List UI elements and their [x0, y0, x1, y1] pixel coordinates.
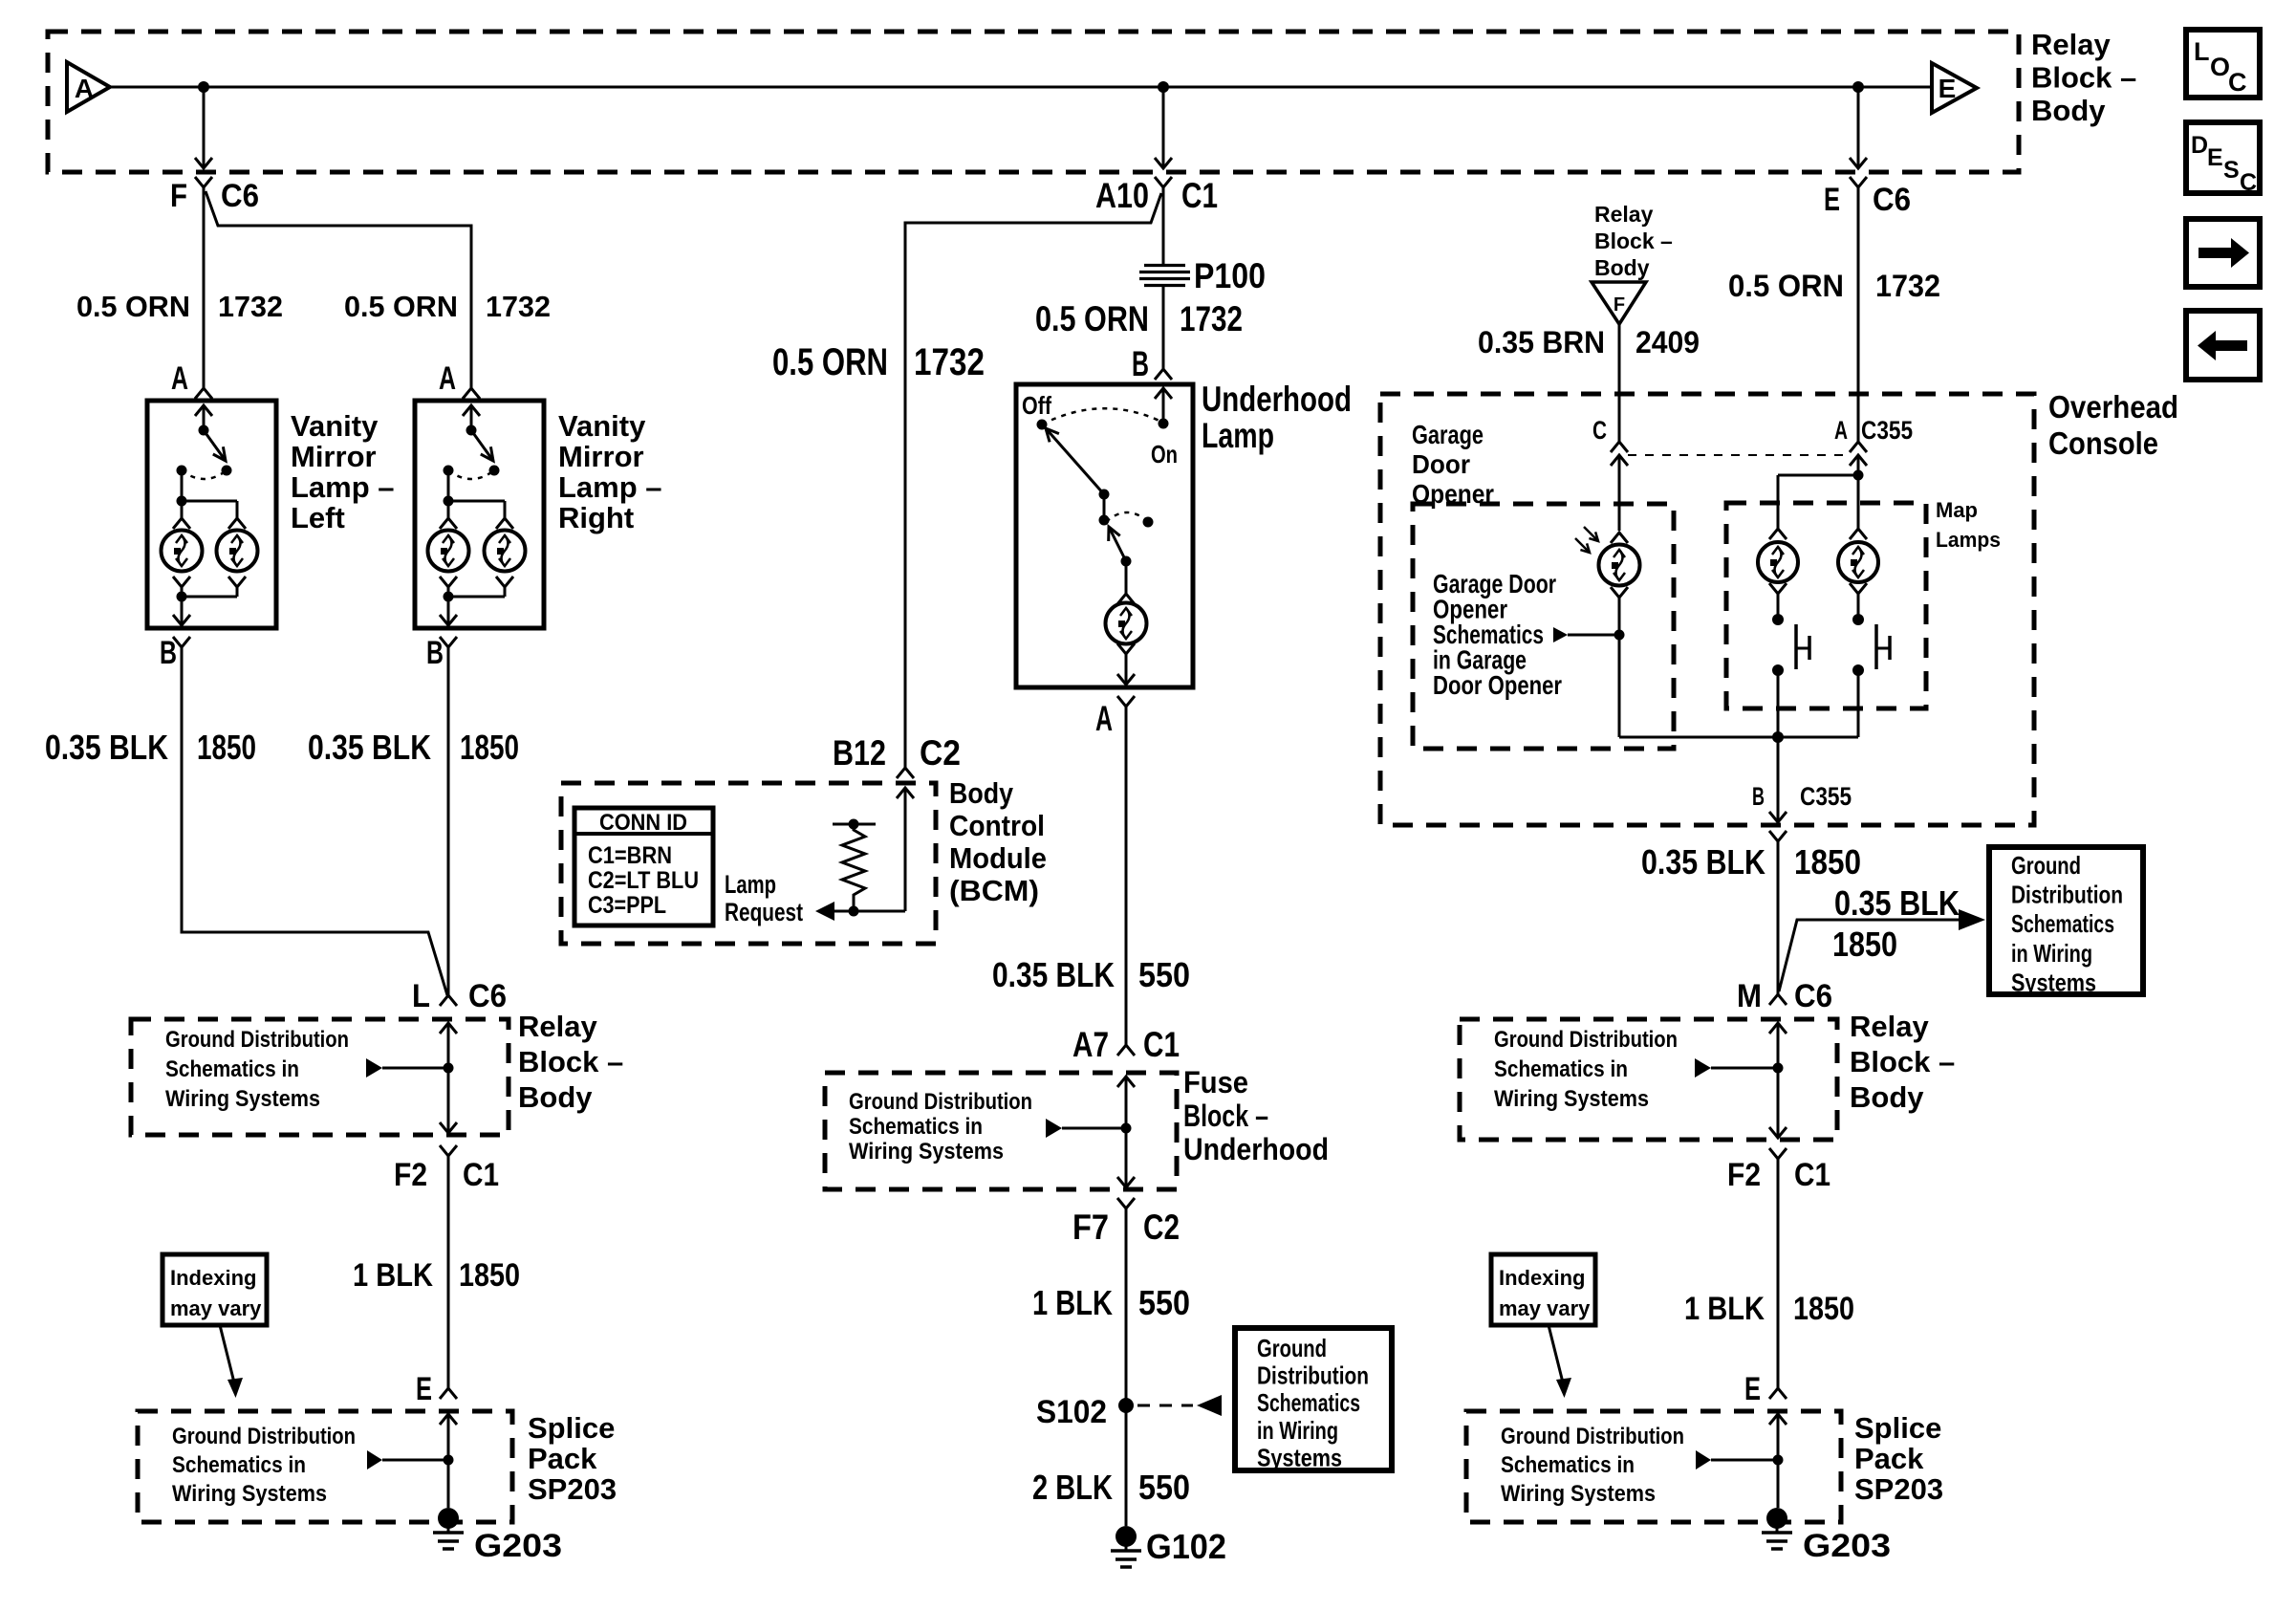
svg-text:Indexing: Indexing	[170, 1266, 256, 1290]
svg-text:1732: 1732	[486, 290, 551, 323]
svg-text:SP203: SP203	[528, 1472, 617, 1506]
connector C C355	[1611, 442, 1628, 452]
connector F C6	[195, 158, 212, 168]
svg-text:Body: Body	[1850, 1080, 1924, 1114]
svg-text:Relay: Relay	[1850, 1010, 1929, 1043]
svg-text:SP203: SP203	[1854, 1472, 1943, 1506]
connector A C355	[1850, 442, 1867, 452]
svg-text:0.35 BLK: 0.35 BLK	[992, 955, 1115, 994]
svg-text:F2: F2	[394, 1157, 427, 1193]
wire F7 to G102	[1125, 1208, 1128, 1526]
overhead console dashed box	[1380, 394, 2034, 825]
svg-text:Right: Right	[558, 501, 634, 534]
splice pack dashed box (left)	[138, 1411, 512, 1522]
svg-text:B12: B12	[833, 733, 886, 773]
svg-text:Pack: Pack	[528, 1442, 597, 1475]
svg-text:0.35 BLK: 0.35 BLK	[1834, 883, 1960, 923]
wire drop to E C6	[1857, 87, 1860, 168]
wire drop to F C6	[203, 87, 206, 168]
switch travel arc 2 (underhood)	[1106, 512, 1146, 522]
reference arrow relay right	[1695, 1058, 1711, 1078]
svg-text:Garage: Garage	[1412, 420, 1484, 449]
wire P100 to underhood lamp	[1162, 287, 1165, 369]
svg-text:1732: 1732	[1875, 269, 1940, 303]
svg-text:F: F	[1614, 294, 1625, 316]
svg-text:may vary: may vary	[1499, 1296, 1591, 1320]
svg-text:Systems: Systems	[2011, 968, 2096, 996]
svg-text:Relay: Relay	[2031, 28, 2111, 61]
svg-text:1850: 1850	[1794, 842, 1861, 882]
svg-text:A: A	[439, 360, 456, 397]
svg-text:Block –: Block –	[1183, 1099, 1268, 1133]
svg-text:Body: Body	[1594, 255, 1650, 280]
wire into splice pack right	[1769, 1414, 1787, 1425]
svg-text:On: On	[1151, 440, 1178, 468]
svg-text:B: B	[160, 635, 177, 671]
ground distribution solid box (middle)	[1235, 1328, 1392, 1470]
svg-text:Relay: Relay	[518, 1010, 597, 1043]
reference arrow splice left	[367, 1450, 382, 1469]
svg-text:Schematics in: Schematics in	[849, 1114, 983, 1140]
svg-text:0.35 BRN: 0.35 BRN	[1478, 325, 1605, 359]
svg-text:G102: G102	[1146, 1527, 1226, 1566]
svg-text:Ground Distribution: Ground Distribution	[1494, 1027, 1678, 1053]
svg-text:D: D	[2191, 132, 2208, 159]
splice pack dashed box (right)	[1466, 1411, 1841, 1522]
svg-text:C6: C6	[221, 178, 259, 214]
wire A to map lamps junction	[1857, 455, 1860, 475]
svg-text:Vanity: Vanity	[558, 409, 646, 443]
svg-text:Body: Body	[949, 776, 1014, 810]
wire E C6 to overhead console	[1857, 187, 1860, 442]
svg-text:1732: 1732	[218, 290, 283, 323]
svg-text:M: M	[1737, 978, 1762, 1014]
svg-text:Ground Distribution: Ground Distribution	[172, 1424, 356, 1449]
svg-text:0.5 ORN: 0.5 ORN	[344, 290, 458, 323]
svg-text:1732: 1732	[914, 341, 985, 383]
svg-text:Lamp –: Lamp –	[558, 470, 662, 504]
BCM dashed box	[561, 783, 936, 944]
left map lamp	[1769, 529, 1787, 539]
wire garage lamp down	[1618, 598, 1621, 737]
svg-text:Underhood: Underhood	[1183, 1132, 1329, 1166]
node F drop junction	[198, 81, 209, 93]
lamp request arrow	[815, 902, 834, 921]
svg-text:1 BLK: 1 BLK	[353, 1257, 433, 1294]
svg-text:B: B	[1752, 782, 1765, 811]
svg-text:C2: C2	[1143, 1208, 1180, 1247]
svg-text:C355: C355	[1800, 782, 1852, 811]
svg-text:1850: 1850	[197, 728, 256, 767]
ground distribution solid box (right)	[1989, 847, 2143, 994]
wire F2 to E (right)	[1777, 1159, 1780, 1388]
svg-text:G203: G203	[474, 1528, 562, 1564]
svg-text:Block –: Block –	[2031, 61, 2136, 95]
wire to left map lamp	[1778, 474, 1858, 477]
svg-text:G203: G203	[1803, 1528, 1891, 1564]
svg-text:E: E	[2207, 144, 2223, 171]
svg-text:C6: C6	[468, 978, 507, 1014]
junction in splice pack left	[444, 1455, 454, 1466]
wire A10 to P100	[1162, 187, 1165, 265]
right map lamp feed	[1857, 475, 1860, 529]
switch link (underhood)	[1103, 494, 1106, 520]
svg-text:P100: P100	[1194, 256, 1266, 295]
ground G102	[1116, 1526, 1137, 1547]
wire main feed	[110, 86, 1932, 89]
svg-text:Ground: Ground	[1257, 1334, 1327, 1362]
svg-text:Off: Off	[1022, 391, 1051, 420]
right map lamp	[1850, 529, 1867, 539]
junction in splice pack right	[1773, 1455, 1784, 1466]
svg-text:Ground Distribution: Ground Distribution	[165, 1027, 349, 1053]
wire F2 to E (left)	[447, 1156, 450, 1388]
connector L C6	[440, 995, 457, 1006]
svg-text:C: C	[2240, 169, 2257, 196]
svg-text:1850: 1850	[1793, 1291, 1854, 1327]
svg-text:Block –: Block –	[518, 1045, 623, 1078]
svg-text:550: 550	[1138, 955, 1190, 994]
svg-text:Lamp –: Lamp –	[291, 470, 395, 504]
svg-text:1850: 1850	[460, 728, 519, 767]
svg-text:(BCM): (BCM)	[949, 874, 1039, 907]
wire C into garage box	[1618, 455, 1621, 531]
ground G203 left	[438, 1508, 459, 1529]
wire through relay block right	[1769, 1023, 1787, 1034]
wire B C355 to M C6	[1777, 841, 1780, 994]
svg-text:Mirror: Mirror	[558, 440, 644, 473]
svg-text:0.5 ORN: 0.5 ORN	[76, 290, 190, 323]
svg-text:Door Opener: Door Opener	[1433, 670, 1562, 700]
indexing arrow (left)	[220, 1325, 235, 1386]
svg-text:Lamp: Lamp	[1202, 416, 1274, 455]
wire F to garage door opener	[1618, 324, 1621, 442]
LOC icon box	[2186, 30, 2260, 98]
svg-text:Console: Console	[2048, 425, 2158, 461]
svg-text:Schematics: Schematics	[2011, 909, 2114, 938]
svg-text:Control: Control	[949, 809, 1045, 842]
switch travel arc (underhood)	[1042, 408, 1161, 425]
svg-text:Module: Module	[949, 841, 1047, 875]
svg-text:Wiring Systems: Wiring Systems	[1501, 1481, 1656, 1507]
svg-text:Ground Distribution: Ground Distribution	[849, 1089, 1032, 1115]
connector F7 C2	[1117, 1198, 1135, 1208]
svg-text:Lamp: Lamp	[725, 870, 776, 899]
svg-text:F2: F2	[1727, 1157, 1761, 1193]
photocell arrows	[1575, 538, 1590, 553]
svg-text:0.35 BLK: 0.35 BLK	[45, 728, 168, 767]
fuse block underhood dashed box	[825, 1073, 1177, 1189]
connector A7 C1	[1117, 1045, 1135, 1056]
svg-text:Body: Body	[2031, 94, 2106, 127]
DESC icon box	[2186, 122, 2260, 193]
wire into BCM	[897, 788, 914, 798]
vanity mirror lamp right box	[415, 401, 544, 628]
wire F to vanity left	[203, 187, 206, 388]
svg-text:S102: S102	[1036, 1394, 1107, 1430]
svg-text:C6: C6	[1794, 978, 1832, 1014]
branch to ground distribution	[1779, 920, 1959, 991]
svg-text:Ground: Ground	[2011, 851, 2081, 880]
svg-text:0.5 ORN: 0.5 ORN	[772, 341, 888, 383]
svg-text:2409: 2409	[1635, 325, 1700, 359]
wire branch to BCM	[905, 193, 1161, 768]
map lamps dashed box	[1726, 503, 1926, 708]
svg-text:Left: Left	[291, 501, 345, 534]
svg-text:550: 550	[1138, 1283, 1190, 1322]
svg-text:Door: Door	[1412, 449, 1470, 479]
pin B vanity right	[440, 637, 457, 647]
top relay block body dashed box	[48, 32, 2019, 172]
svg-text:Wiring Systems: Wiring Systems	[849, 1139, 1004, 1165]
svg-text:L: L	[2194, 37, 2210, 66]
wire drop to A10 C1	[1162, 87, 1165, 168]
right arrow icon box	[2186, 219, 2260, 287]
svg-text:C: C	[1592, 416, 1607, 445]
svg-text:0.35 BLK: 0.35 BLK	[308, 728, 431, 767]
garage door opener lamp	[1611, 533, 1628, 543]
svg-text:Ground Distribution: Ground Distribution	[1501, 1424, 1684, 1449]
wire vanity left ground run	[182, 647, 447, 995]
svg-text:F7: F7	[1072, 1208, 1109, 1247]
svg-text:C1=BRN: C1=BRN	[588, 842, 672, 869]
connector F2 C1 (right)	[1769, 1148, 1787, 1159]
triangle connector E	[1932, 63, 1977, 113]
svg-text:in Wiring: in Wiring	[1257, 1416, 1338, 1445]
svg-text:C6: C6	[1873, 182, 1911, 218]
svg-text:Systems: Systems	[1257, 1443, 1342, 1471]
indexing arrow (right)	[1549, 1325, 1564, 1386]
svg-text:A: A	[1834, 416, 1848, 445]
switch arm upper (underhood)	[1046, 428, 1104, 494]
svg-text:F: F	[170, 178, 187, 214]
svg-text:Block –: Block –	[1850, 1045, 1955, 1078]
connector E C6	[1850, 158, 1867, 168]
svg-text:1732: 1732	[1180, 299, 1243, 338]
svg-text:Schematics in: Schematics in	[1501, 1452, 1635, 1478]
underhood lamp exit wire	[1125, 654, 1128, 685]
junction in relay block left	[444, 1063, 454, 1074]
connector B12 C2	[897, 768, 914, 778]
svg-text:Fuse: Fuse	[1183, 1065, 1248, 1099]
svg-text:2 BLK: 2 BLK	[1032, 1468, 1113, 1507]
svg-text:Schematics in: Schematics in	[172, 1452, 306, 1478]
svg-text:Block –: Block –	[1594, 229, 1673, 253]
reference arrow garage	[1553, 627, 1568, 642]
left arrow icon box	[2186, 311, 2260, 380]
inline connector P100	[1144, 264, 1185, 267]
svg-text:CONN ID: CONN ID	[599, 810, 687, 836]
svg-text:C2: C2	[920, 733, 961, 773]
svg-text:1 BLK: 1 BLK	[1684, 1291, 1765, 1327]
reference arrow splice right	[1696, 1450, 1711, 1469]
left map lamp switch	[1777, 594, 1780, 620]
svg-text:E: E	[1939, 74, 1957, 103]
svg-text:Schematics: Schematics	[1257, 1388, 1360, 1417]
triangle connector A	[67, 62, 110, 112]
svg-text:Wiring Systems: Wiring Systems	[1494, 1086, 1649, 1112]
svg-text:Schematics in: Schematics in	[1494, 1056, 1628, 1082]
triangle connector F	[1592, 282, 1646, 324]
svg-text:Wiring Systems: Wiring Systems	[165, 1086, 320, 1112]
pin B vanity left	[173, 637, 190, 647]
svg-text:A: A	[171, 360, 188, 397]
svg-text:Lamps: Lamps	[1936, 528, 2001, 552]
node E drop junction	[1852, 81, 1864, 93]
svg-text:Pack: Pack	[1854, 1442, 1924, 1475]
svg-text:550: 550	[1138, 1468, 1190, 1507]
svg-text:C1: C1	[463, 1157, 499, 1193]
svg-text:1 BLK: 1 BLK	[1032, 1283, 1113, 1322]
svg-text:B: B	[426, 635, 444, 671]
wire branch to vanity right	[206, 191, 471, 388]
connector M C6	[1769, 994, 1787, 1005]
map lamps common wire	[1619, 736, 1858, 739]
svg-text:in Wiring: in Wiring	[2011, 939, 2092, 968]
junction in fuse block	[1121, 1123, 1132, 1134]
wire A to A7	[1125, 707, 1128, 1045]
underhood lamp box	[1016, 384, 1193, 687]
svg-text:0.5 ORN: 0.5 ORN	[1035, 299, 1149, 338]
svg-text:Wiring Systems: Wiring Systems	[172, 1481, 327, 1507]
svg-text:Request: Request	[725, 898, 803, 926]
svg-text:Relay: Relay	[1594, 202, 1654, 227]
svg-text:A10: A10	[1095, 176, 1149, 215]
svg-text:Distribution: Distribution	[2011, 881, 2123, 909]
svg-text:Overhead: Overhead	[2048, 389, 2178, 425]
svg-text:A: A	[1095, 699, 1113, 738]
svg-text:C1: C1	[1794, 1157, 1830, 1193]
reference arrow fuse block	[1046, 1119, 1062, 1138]
node A10 drop junction	[1158, 81, 1169, 93]
svg-text:Underhood: Underhood	[1202, 380, 1352, 419]
svg-text:Body: Body	[518, 1080, 593, 1114]
svg-text:A: A	[75, 74, 94, 103]
svg-text:S: S	[2223, 157, 2240, 184]
connector B C355	[1777, 737, 1780, 822]
svg-text:Schematics in: Schematics in	[165, 1056, 299, 1082]
wire vanity right ground run	[447, 647, 450, 995]
svg-text:E: E	[1824, 182, 1840, 218]
svg-text:C1: C1	[1181, 176, 1218, 215]
wire into splice pack left	[440, 1414, 457, 1425]
svg-text:1850: 1850	[459, 1257, 520, 1294]
garage door opener dashed box	[1413, 504, 1674, 749]
junction in relay block right	[1773, 1063, 1784, 1074]
underhood switch wire in	[1162, 388, 1165, 424]
resistor in BCM	[833, 823, 876, 826]
right map lamp switch	[1857, 594, 1860, 620]
indexing may vary box (right)	[1491, 1254, 1595, 1325]
svg-text:A7: A7	[1072, 1025, 1109, 1064]
svg-text:C1: C1	[1143, 1025, 1180, 1064]
svg-text:C355: C355	[1861, 416, 1913, 445]
reference arrow relay block left	[366, 1058, 382, 1078]
svg-text:0.5 ORN: 0.5 ORN	[1728, 269, 1844, 303]
indexing may vary box (left)	[162, 1254, 267, 1325]
connector A10 C1	[1155, 158, 1172, 168]
vanity mirror lamp left box	[147, 401, 276, 628]
svg-text:L: L	[412, 978, 430, 1014]
svg-text:Distribution: Distribution	[1257, 1361, 1369, 1390]
svg-text:Indexing: Indexing	[1499, 1266, 1585, 1290]
svg-text:Splice: Splice	[1854, 1411, 1941, 1445]
C355 connector dashed link	[1628, 454, 1850, 456]
svg-text:may vary: may vary	[170, 1296, 262, 1320]
CONN ID table	[574, 808, 713, 925]
svg-text:Splice: Splice	[528, 1411, 615, 1445]
connector F2 C1 (left)	[440, 1145, 457, 1156]
switch arm lower (underhood)	[1109, 527, 1126, 561]
wire through relay block left	[440, 1023, 457, 1034]
underhood lamp symbol	[1125, 561, 1128, 594]
svg-text:C3=PPL: C3=PPL	[588, 892, 666, 919]
svg-text:O: O	[2210, 53, 2230, 81]
ground G203 right	[1766, 1508, 1787, 1529]
svg-text:B: B	[1132, 344, 1149, 383]
svg-text:0.35 BLK: 0.35 BLK	[1641, 842, 1765, 882]
relay block body dashed box (left)	[131, 1019, 509, 1135]
svg-text:C2=LT BLU: C2=LT BLU	[588, 867, 699, 894]
off position dot	[1037, 420, 1048, 430]
svg-text:E: E	[416, 1371, 432, 1407]
svg-text:C: C	[2228, 68, 2247, 97]
pin A underhood	[1117, 696, 1135, 707]
relay block body dashed box (right)	[1460, 1019, 1837, 1140]
wire through fuse block	[1117, 1077, 1135, 1087]
svg-text:Mirror: Mirror	[291, 440, 377, 473]
svg-text:Map: Map	[1936, 498, 1978, 522]
svg-text:E: E	[1744, 1371, 1761, 1407]
svg-text:Vanity: Vanity	[291, 409, 379, 443]
svg-text:1850: 1850	[1832, 925, 1897, 964]
